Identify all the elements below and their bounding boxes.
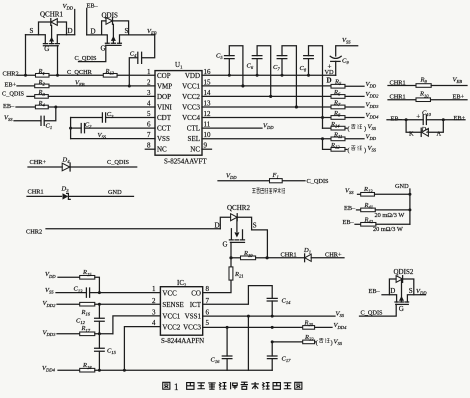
svg-text:VCC2: VCC2 (182, 93, 200, 101)
svg-text:GND: GND (108, 189, 122, 196)
svg-text:CHR1: CHR1 (28, 188, 44, 195)
label thermal fuse chinese text (252, 188, 285, 193)
capacitor C8 (300, 46, 325, 129)
pin numbers U1 left (145, 68, 155, 150)
node V_DD4 row R18 (42, 365, 80, 373)
wire VSS1 row pin6 (203, 311, 345, 319)
capacitor C5 (216, 46, 244, 88)
svg-text:S-8254AAVFT: S-8254AAVFT (164, 158, 207, 166)
svg-text:VD: VD (325, 69, 335, 76)
svg-text:C_QDIS: C_QDIS (307, 178, 330, 185)
svg-text:VSS: VSS (157, 135, 170, 143)
svg-text:CHR+: CHR+ (325, 251, 342, 258)
svg-text:C_QDIS: C_QDIS (2, 91, 25, 98)
capacitor C15 (95, 334, 117, 370)
svg-text:EB–: EB– (3, 103, 15, 110)
wire ICT hook to C14 (203, 286, 273, 305)
op-amp U1 S-8254AAVFT (155, 61, 207, 165)
node V_DD3 row R17 (43, 330, 80, 338)
resistor R10 (416, 91, 467, 102)
node V_SS row C13 pin1 (45, 287, 86, 295)
svg-text:VCC: VCC (162, 289, 177, 297)
svg-text:CCT: CCT (157, 125, 171, 133)
wire to CHR1 with diode D1 (267, 247, 344, 262)
svg-text:6: 6 (206, 309, 210, 317)
svg-text:): ) (364, 147, 366, 154)
svg-text:S: S (253, 221, 257, 229)
svg-text:11: 11 (204, 121, 211, 129)
svg-text:VCC1: VCC1 (162, 313, 180, 321)
resistor R13 (103, 68, 155, 77)
node GND block (395, 183, 411, 224)
svg-text:QCHR1: QCHR1 (40, 11, 63, 19)
svg-text:(: ( (348, 126, 350, 133)
resistor R5 (331, 78, 377, 88)
wire VCC3 row pin13 (202, 106, 331, 109)
resistor R9 (416, 77, 467, 88)
svg-text:QDIS: QDIS (102, 12, 118, 20)
svg-text:20 mΩ/3 W: 20 mΩ/3 W (373, 226, 403, 233)
svg-text:S: S (30, 27, 34, 35)
resistor R22 not soldered (303, 334, 343, 346)
capacitor C14 (267, 298, 291, 317)
svg-text:VCC2: VCC2 (162, 323, 180, 331)
caption figure title (163, 382, 302, 392)
node EB+ row 2 (5, 81, 35, 88)
svg-text:EB–: EB– (344, 205, 356, 212)
wire QCHR1 source rail to CHR2 row (25, 35, 27, 76)
wire pin4 dogleg (124, 327, 160, 371)
transistor QDIS (87, 12, 155, 53)
transistor QCHR2 (215, 204, 268, 258)
svg-text:QCHR2: QCHR2 (227, 204, 250, 212)
node CHR2 row 1 (3, 70, 36, 77)
wire QDIS2 gate stub net C_QDIS (360, 304, 397, 316)
svg-text:G: G (101, 45, 106, 53)
wire CTL stub pin11 net V_DD (202, 122, 274, 130)
wire VSS bracket pin5-pin7 (71, 118, 155, 140)
svg-text:9: 9 (204, 142, 208, 150)
svg-text:CHR+: CHR+ (30, 159, 47, 166)
svg-text:1: 1 (174, 382, 179, 392)
capacitor C4 (128, 35, 155, 88)
resistor R20 (303, 320, 347, 330)
pin numbers IC2 (152, 285, 210, 327)
svg-text:EB–: EB– (369, 288, 381, 295)
wire QDIS gate stub net C_QDIS (75, 45, 106, 62)
svg-text:16: 16 (204, 68, 212, 76)
svg-text:EB+: EB+ (5, 81, 17, 88)
node CHR1 to GND row with D3 (27, 186, 134, 200)
wire R22 row (271, 340, 303, 343)
svg-text:14: 14 (204, 89, 212, 97)
svg-text:12: 12 (204, 110, 212, 118)
svg-text:1: 1 (147, 68, 151, 76)
svg-text:20 mΩ/3 W: 20 mΩ/3 W (375, 212, 405, 219)
svg-text:VCC4: VCC4 (182, 114, 200, 122)
wire pin3 dogleg (113, 316, 160, 334)
svg-text:S: S (409, 287, 413, 295)
svg-text:VDD: VDD (185, 72, 200, 80)
svg-text:(: ( (316, 339, 318, 346)
svg-text:+: + (416, 113, 420, 121)
svg-text:QDIS2: QDIS2 (394, 268, 414, 276)
resistor R6 (331, 89, 379, 99)
node CHR2 long wire (26, 229, 220, 236)
wire row3 to pin 3 (48, 95, 155, 97)
capacitor C2 (69, 122, 155, 133)
svg-text:S-8244AAPFN: S-8244AAPFN (161, 337, 204, 345)
svg-text:K: K (409, 130, 414, 137)
svg-text:10: 10 (204, 131, 212, 139)
capacitor C10 (416, 110, 431, 125)
svg-text:D: D (68, 27, 73, 35)
svg-text:CO: CO (191, 289, 201, 297)
svg-text:DOP: DOP (157, 93, 171, 101)
wire C_QCHR net (49, 69, 103, 77)
wire EB- to EB+ row with C10 (387, 115, 466, 122)
node C_QDIS row 3 (2, 91, 35, 98)
fuse F1 thermal (218, 172, 329, 185)
node CHR1 row right top (388, 79, 416, 86)
node V_DD2 row R16 pin2 (43, 300, 80, 308)
capacitor C7 (273, 46, 298, 109)
capacitor C9 polarized (328, 37, 358, 75)
svg-text:C_QCHR: C_QCHR (67, 69, 93, 76)
svg-text:CHR2: CHR2 (26, 229, 42, 236)
svg-text:G: G (44, 45, 49, 53)
wire QCHR1 gate to C_QCHR row (57, 46, 59, 76)
wire vertical pin6 drop (247, 316, 249, 370)
resistor R12 not soldered (330, 142, 377, 154)
svg-text:VCC1: VCC1 (182, 82, 200, 90)
wire SEL to R12 bracket (323, 139, 332, 150)
node CHR+ to C_QDIS row with D4 (28, 157, 137, 172)
svg-text:EB+: EB+ (454, 115, 466, 122)
svg-text:S: S (125, 27, 129, 35)
svg-text:VSS1: VSS1 (185, 313, 202, 321)
svg-text:5: 5 (206, 319, 210, 327)
svg-text:EB–: EB– (343, 219, 355, 226)
wire VCC1 row pin15 (202, 84, 331, 87)
resistor R1 (36, 68, 50, 77)
svg-text:SEL: SEL (188, 135, 200, 143)
capacitor C16 (211, 327, 232, 370)
transistor QCHR1 (26, 11, 75, 53)
resistor R13b VSS-GND (345, 186, 410, 196)
wire VDD row pin16 (202, 74, 336, 77)
svg-text:VINI: VINI (157, 104, 172, 112)
svg-text:A: A (437, 131, 442, 138)
op-amp IC2 S-8244AAPFN (160, 279, 204, 345)
svg-text:COP: COP (157, 72, 171, 80)
label not-soldered R12 (351, 146, 362, 150)
capacitor C12 (76, 304, 104, 334)
svg-text:8: 8 (147, 142, 151, 150)
capacitor C6 (247, 46, 273, 98)
svg-text:CHR2: CHR2 (3, 70, 19, 77)
resistor R41 20mohm (344, 202, 410, 219)
svg-text:C_QDIS: C_QDIS (361, 310, 384, 317)
wire VCC4 row pin12 (202, 117, 331, 119)
capacitor C17 (267, 342, 291, 370)
resistor R42 20mohm (343, 216, 410, 233)
svg-text:G: G (399, 305, 404, 313)
label not-soldered R22 (319, 338, 329, 342)
transistor QDIS2 (369, 268, 428, 313)
wire VCC2 row pin14 (202, 95, 331, 98)
svg-text:EB–: EB– (87, 3, 99, 10)
svg-text:VCC3: VCC3 (182, 104, 200, 112)
svg-text:7: 7 (147, 131, 151, 139)
svg-text:D: D (327, 77, 332, 85)
svg-text:3: 3 (147, 89, 151, 97)
node V_SS stub left (4, 115, 41, 123)
pin numbers U1 right (202, 68, 212, 150)
svg-text:ICT: ICT (190, 301, 202, 309)
svg-text:): ) (364, 126, 366, 133)
resistor R2 (35, 84, 49, 88)
capacitor C13 (74, 286, 161, 298)
diode VD label (325, 69, 335, 85)
svg-text:15: 15 (204, 78, 212, 86)
svg-text:C_QDIS: C_QDIS (107, 159, 130, 166)
resistor R21 (203, 258, 244, 293)
svg-text:VCC3: VCC3 (183, 323, 201, 331)
resistor R4 (35, 105, 48, 109)
node CHR1 row right second (388, 94, 416, 101)
resistor R8 (331, 110, 379, 120)
svg-text:CHR1: CHR1 (281, 251, 297, 258)
wire VCC3 row pin5 (203, 326, 303, 329)
svg-text:(: ( (348, 147, 350, 154)
svg-text:C_QDIS: C_QDIS (75, 55, 98, 62)
resistor R14 not soldered (323, 121, 377, 133)
wire V_EB net to pin2 (49, 79, 155, 87)
svg-text:NC: NC (157, 146, 167, 154)
resistor R16 (80, 302, 161, 316)
capacitor C3 (71, 111, 155, 122)
svg-text:NC: NC (190, 146, 200, 154)
svg-text:D: D (91, 27, 96, 35)
svg-text:G: G (223, 241, 228, 249)
capacitor C1 (41, 107, 56, 130)
svg-text:8: 8 (206, 285, 210, 293)
node V_DD row R15 (45, 271, 80, 279)
node EB- row 4 (3, 103, 35, 110)
svg-text:4: 4 (147, 100, 151, 108)
diode D2 loop (406, 120, 443, 138)
svg-text:6: 6 (147, 121, 151, 129)
svg-text:): ) (331, 339, 333, 346)
svg-text:D: D (215, 222, 220, 230)
resistor R15 (80, 269, 100, 292)
wire QCHR2 gate drop (229, 242, 232, 259)
svg-text:CDT: CDT (157, 114, 172, 122)
power V_DD at QCHR1 drain (63, 3, 75, 35)
svg-text:VMP: VMP (157, 82, 172, 90)
svg-text:5: 5 (147, 110, 151, 118)
svg-text:GND: GND (395, 183, 409, 190)
svg-text:13: 13 (204, 100, 212, 108)
wire SEL row pin10 (202, 137, 331, 140)
svg-text:SENSE: SENSE (162, 301, 183, 309)
resistor R17 (80, 325, 113, 335)
svg-text:EB+: EB+ (453, 94, 465, 101)
wire row4 to pin 4 (48, 106, 155, 109)
node EB- at QDIS drain (87, 3, 99, 35)
resistor R19 (231, 250, 269, 260)
label not-soldered R14 (351, 124, 362, 128)
svg-text:CTL: CTL (187, 125, 200, 133)
resistor R7 (331, 100, 379, 109)
svg-text:2: 2 (147, 78, 151, 86)
resistor R11 (331, 131, 377, 141)
resistor R3 (35, 95, 49, 99)
resistor R18 (80, 362, 273, 372)
svg-text:D: D (390, 287, 395, 295)
